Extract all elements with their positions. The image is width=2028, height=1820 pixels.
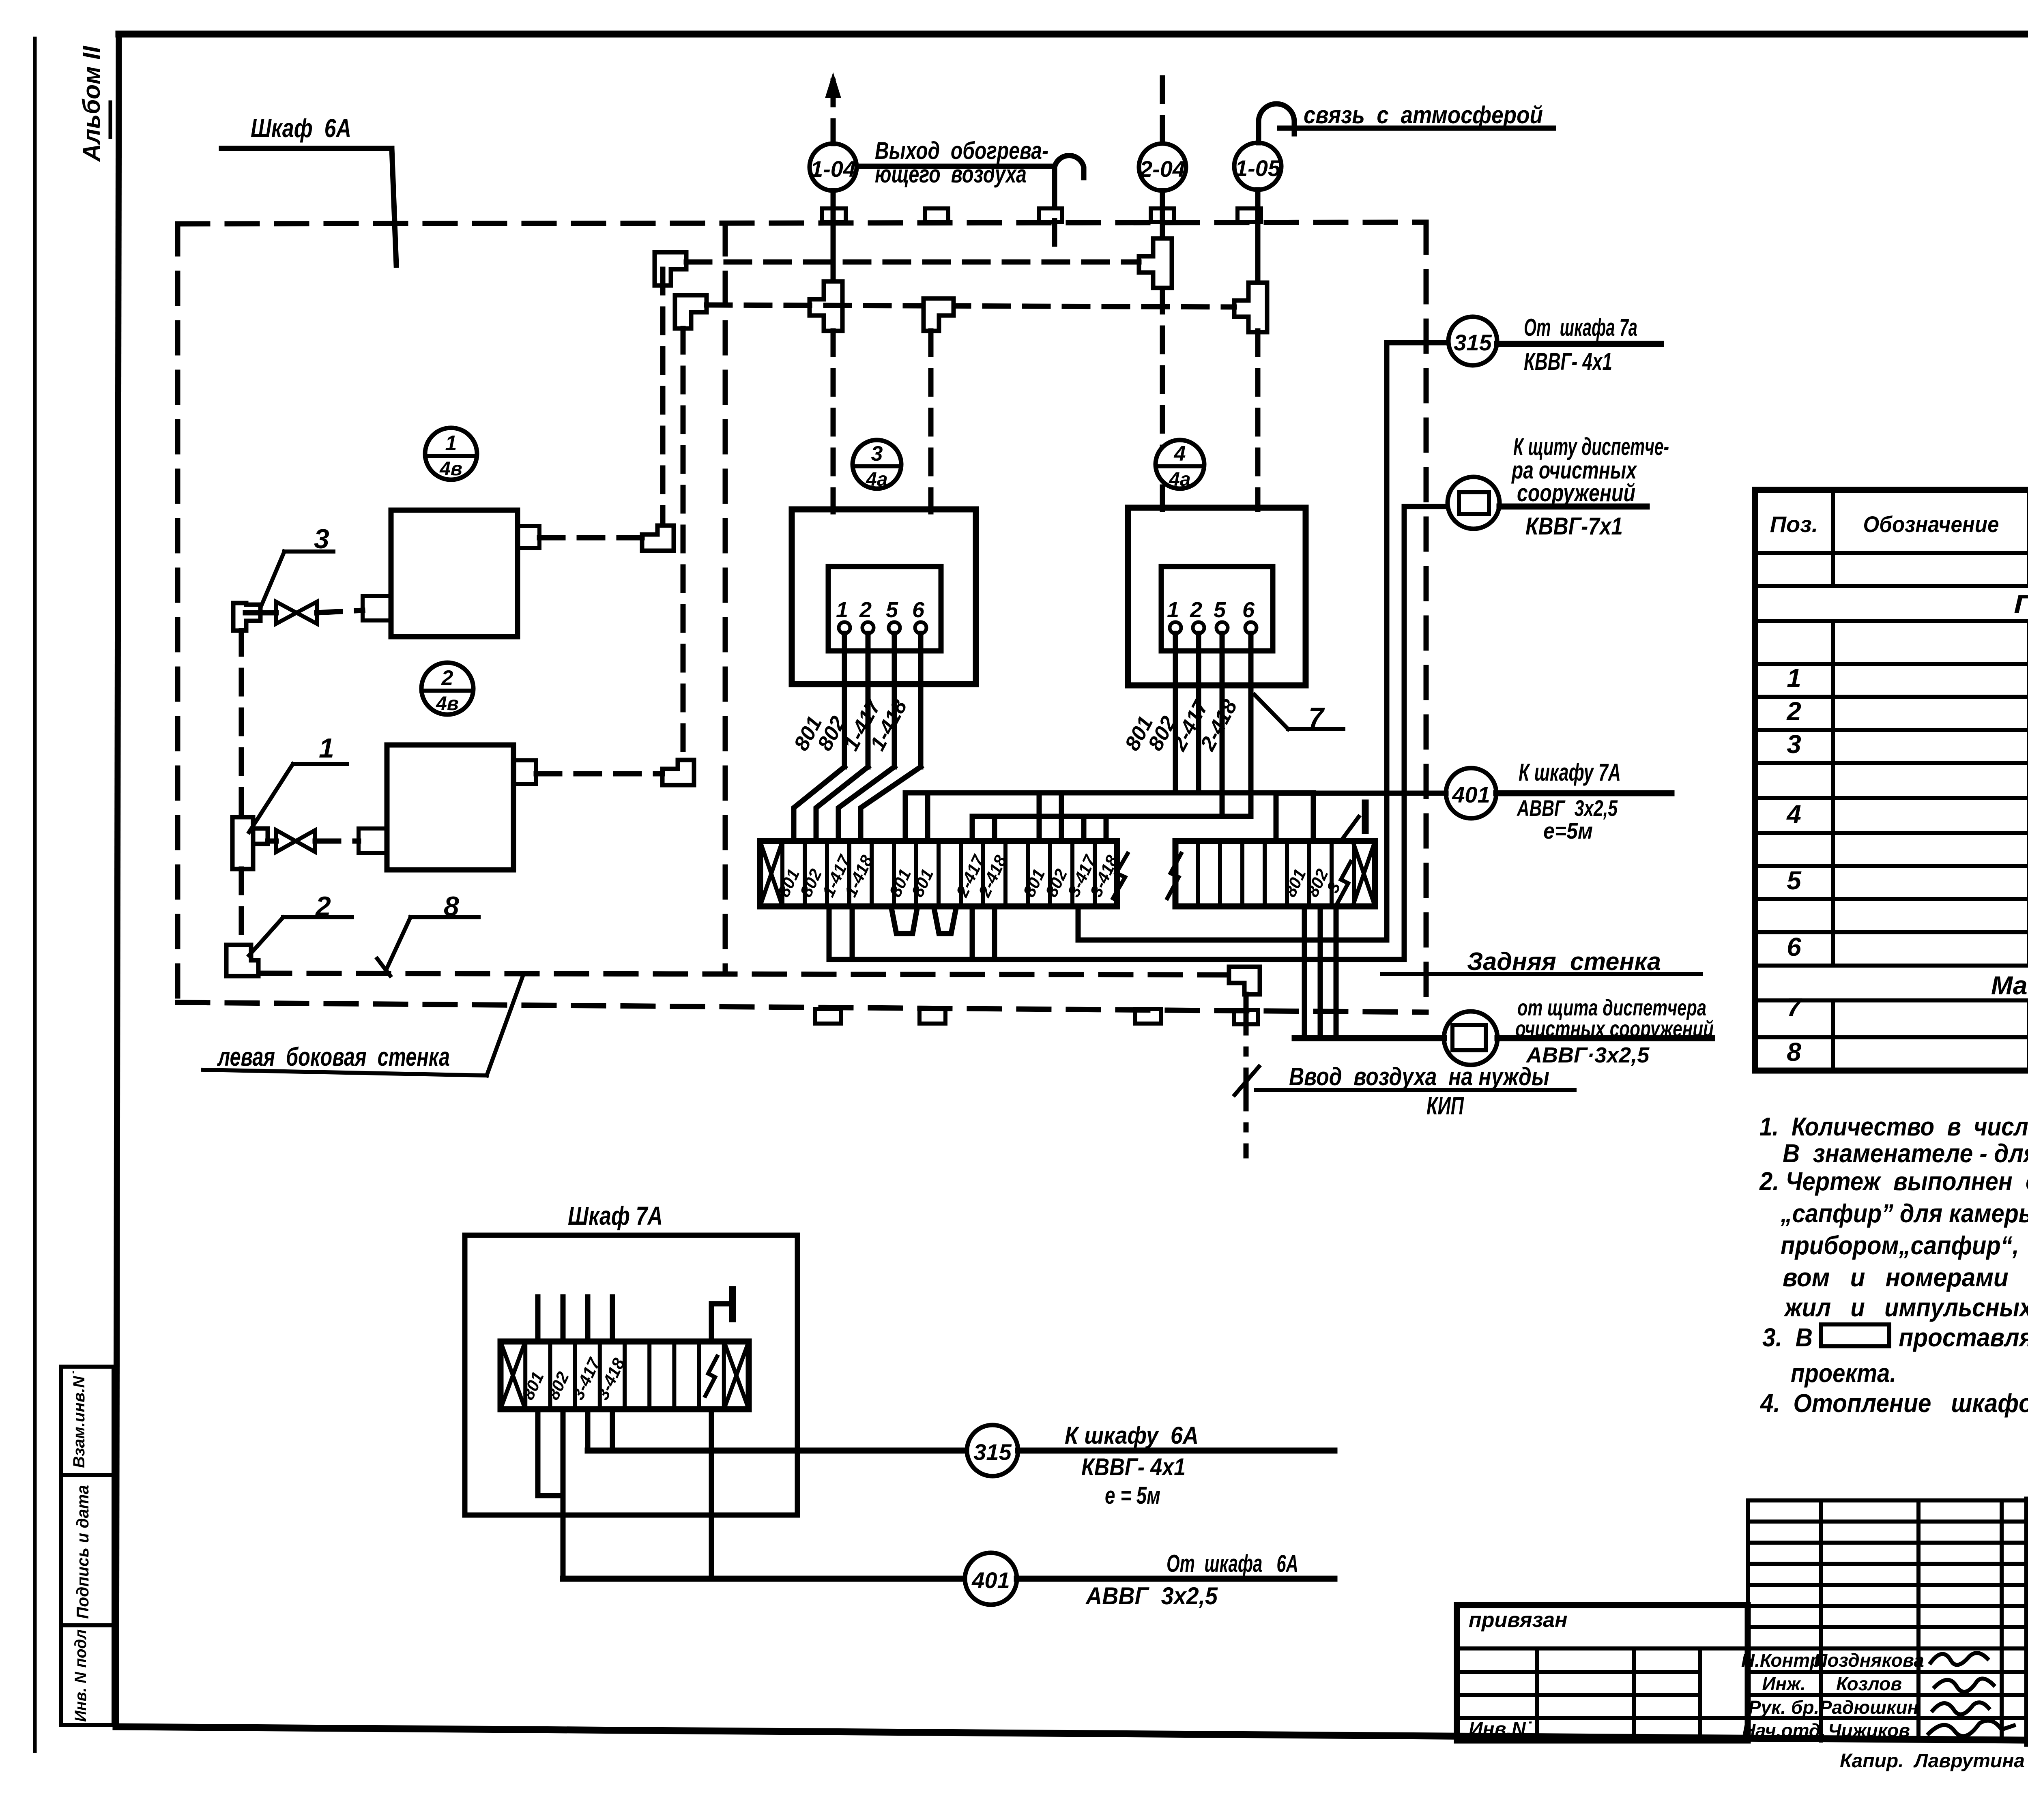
svg-text:Альбом II: Альбом II	[78, 45, 105, 162]
svg-text:Подпись и дата: Подпись и дата	[73, 1485, 92, 1619]
svg-text:левая боковая стенка: левая боковая стенка	[217, 1042, 450, 1071]
table row line	[1755, 761, 2028, 765]
table column line	[1831, 490, 1835, 586]
privyazan box	[1457, 1605, 1748, 1741]
wire tilde up	[711, 1304, 733, 1341]
svg-text:е = 5м: е = 5м	[1105, 1482, 1160, 1509]
cable AVVG drops	[1302, 906, 1307, 1038]
stem 2-04	[1160, 191, 1165, 240]
wire drop t2	[1173, 767, 1178, 793]
svg-text:4в: 4в	[436, 693, 459, 715]
svg-text:Поз.: Поз.	[1770, 511, 1818, 537]
strip2 end cross	[1353, 841, 1375, 906]
title code box	[2027, 1500, 2028, 1559]
impulse link to box1	[539, 535, 642, 541]
mounting tab	[1135, 1009, 1161, 1024]
signature column stack	[1746, 1500, 1750, 1741]
back wall dashed line	[260, 973, 1229, 975]
strip3 left cross	[501, 1341, 525, 1409]
wire drop 801	[925, 793, 930, 841]
position circle 4/4a	[1156, 440, 1204, 489]
box1 right stub	[518, 526, 539, 548]
wire drop 2-418	[992, 816, 997, 841]
svg-text:1. Количество в числителе: 1. Количество в числителе дано для шкафа…	[1759, 1112, 2028, 1141]
table row line	[1755, 551, 2028, 555]
svg-text:Шкаф 7А: Шкаф 7А	[568, 1201, 663, 1230]
wire jog	[838, 767, 894, 841]
wire 315 right	[1497, 341, 1661, 347]
svg-text:Чижиков: Чижиков	[1828, 1720, 1910, 1741]
svg-text:1: 1	[445, 431, 457, 455]
table row line	[1755, 1035, 2028, 1039]
position circle 1/4v	[425, 428, 477, 480]
frame top	[119, 31, 2028, 38]
svg-text:Задняя стенка: Задняя стенка	[1467, 948, 1661, 976]
impulse link to box2	[536, 771, 662, 777]
wire bus upper	[905, 793, 1313, 841]
strip3 squiggle	[705, 1356, 717, 1396]
mounting tab	[822, 208, 846, 222]
arrow up 1-04	[825, 72, 841, 98]
wire jog	[794, 767, 844, 841]
margin stamp box	[61, 1367, 114, 1725]
svg-text:315: 315	[1454, 330, 1492, 355]
wire 401 bottom right	[1017, 1576, 1334, 1582]
svg-text:КВВГ-7х1: КВВГ-7х1	[1525, 513, 1623, 540]
mounting tab	[1237, 208, 1261, 222]
svg-text:От шкафа 6А: От шкафа 6А	[1167, 1550, 1298, 1577]
wire 401 riser	[1274, 793, 1279, 841]
wire 401 right	[1496, 790, 1671, 796]
svg-text:3: 3	[871, 442, 883, 466]
wire 2-418	[1248, 633, 1254, 767]
position circle 3/4a	[853, 440, 901, 489]
elbow fitting F	[226, 945, 258, 976]
elbow fitting V2 bottom	[662, 760, 694, 785]
svg-text:Рук. бр.: Рук. бр.	[1749, 1697, 1820, 1718]
wire drops 2-417/2-418 low	[970, 906, 975, 959]
svg-text:401: 401	[1452, 782, 1490, 807]
svg-text:1-05: 1-05	[1235, 155, 1281, 181]
svg-text:Радюшкин: Радюшкин	[1820, 1697, 1919, 1718]
wire tilde down	[709, 1409, 714, 1579]
impulse riser V1	[660, 269, 666, 526]
svg-text:2: 2	[1786, 697, 1801, 726]
table row line	[1755, 796, 2028, 800]
signatures	[1931, 1653, 1987, 1665]
tee fitting 2-04	[1139, 238, 1172, 288]
svg-text:Позднякова: Позднякова	[1814, 1650, 1924, 1671]
wire 2-417	[1220, 633, 1225, 767]
elbow fitting bus1	[655, 252, 686, 285]
wire KVVG7 right	[1500, 504, 1647, 510]
wire 315 bottom right	[1018, 1448, 1334, 1454]
strip2 break squiggle mid	[1338, 862, 1351, 903]
table column line	[2027, 1000, 2028, 1071]
table row line	[1755, 662, 2028, 666]
elbow fitting G	[1229, 967, 1260, 994]
svg-text:1: 1	[1787, 663, 1801, 693]
svg-text:„сапфир” для камеры распреде: „сапфир” для камеры распределения ила. Ш…	[1780, 1199, 2028, 1228]
wire 3-418 down	[610, 1409, 615, 1451]
svg-text:Прочие изделия: Прочие изделия	[2014, 590, 2028, 619]
svg-text:5: 5	[1214, 598, 1226, 622]
svg-text:Шкаф 6А: Шкаф 6А	[251, 114, 351, 143]
wire loop U1	[891, 906, 917, 934]
svg-text:очистных сооружений: очистных сооружений	[1515, 1016, 1714, 1041]
impulse drop to sapphire box1	[928, 331, 934, 512]
svg-text:прибором„сапфир“, аналогичен: прибором„сапфир“, аналогичен и отличаетс…	[1781, 1231, 2028, 1260]
table row line	[1755, 619, 2028, 623]
svg-text:вом и номерами отходящ: вом и номерами отходящих кабелей, маркир…	[1783, 1263, 2028, 1292]
table column line	[2027, 621, 2028, 966]
svg-text:2-04: 2-04	[1139, 156, 1185, 182]
svg-text:6: 6	[1787, 932, 1801, 962]
strip3 right cross	[724, 1341, 749, 1409]
wire jog	[816, 767, 868, 841]
cable circle 315 bottom	[967, 1425, 1018, 1476]
wire ot schita left	[1295, 1035, 1444, 1041]
svg-text:Инж.: Инж.	[1762, 1673, 1806, 1694]
wire 3-417 down	[585, 1409, 591, 1451]
sapphire transmitter box 2	[1128, 508, 1306, 685]
cable box circle KVVG7	[1448, 477, 1500, 529]
wire bus lower	[972, 767, 1251, 841]
terminal strip XT1	[760, 841, 1117, 906]
cable circle 401 top	[1446, 768, 1496, 818]
impulse drop D-E	[239, 631, 244, 817]
wire 801	[1173, 633, 1178, 767]
svg-text:связь с атмосферой: связь с атмосферой	[1304, 101, 1543, 129]
link tee-valve	[268, 839, 276, 844]
hook 1-05	[1259, 104, 1294, 143]
impulse drop E-F	[239, 869, 244, 945]
svg-text:1: 1	[319, 733, 334, 764]
svg-text:4: 4	[1174, 442, 1186, 466]
svg-text:2: 2	[859, 598, 872, 622]
svg-text:5: 5	[1787, 866, 1802, 895]
svg-text:315: 315	[973, 1439, 1012, 1465]
cable KVVG-7x1 run	[829, 507, 1448, 959]
wire 1-418	[918, 633, 924, 767]
svg-text:2. Чертеж выполнен для шка: 2. Чертеж выполнен для шкафа 6А с двумя …	[1759, 1167, 2028, 1196]
cabinet 7A box	[465, 1235, 797, 1515]
elbow fitting bus2	[675, 295, 707, 328]
paper left edge	[33, 39, 37, 1751]
wire 802 down	[561, 1409, 566, 1579]
box1 left stub	[363, 596, 391, 620]
svg-text:Козлов: Козлов	[1836, 1673, 1902, 1694]
svg-text:6: 6	[1242, 598, 1255, 622]
wire 401 left	[1276, 791, 1446, 796]
terminal strip XT2	[1175, 841, 1375, 906]
svg-text:КВВГ- 4х1: КВВГ- 4х1	[1524, 348, 1612, 375]
strip2 break squiggle left	[1167, 854, 1181, 898]
svg-text:Выход обогрева-: Выход обогрева-	[875, 137, 1048, 164]
dashed vent line 1-04	[831, 81, 836, 144]
svg-text:сооружений: сооружений	[1517, 479, 1635, 507]
cable 315 run	[1078, 343, 1448, 940]
stem 1-05	[1255, 190, 1261, 284]
strip1 end cross	[760, 841, 782, 906]
table row line	[1755, 695, 2028, 699]
strip1 break squiggle	[1113, 854, 1128, 898]
wire drop 3-418	[1104, 816, 1109, 841]
wire drop 3-417	[1081, 816, 1087, 841]
parts table frame	[1755, 490, 2028, 1071]
terminal strip XT3	[501, 1341, 749, 1409]
impulse line 1-05 down	[1255, 331, 1261, 509]
table row line	[1755, 584, 2028, 588]
tick mark	[377, 959, 390, 976]
cable circle 401 bottom	[965, 1553, 1017, 1605]
instrument 1-05	[1234, 143, 1281, 190]
instrument 1-04	[810, 144, 857, 191]
box2 right stub	[514, 760, 536, 784]
wire drop 802 low	[850, 906, 855, 959]
svg-text:АВВГ 3х2,5: АВВГ 3х2,5	[1516, 795, 1618, 821]
svg-text:Нач.отд.: Нач.отд.	[1742, 1720, 1826, 1741]
svg-text:К шкафу 6А: К шкафу 6А	[1065, 1422, 1199, 1449]
mounting tab	[1151, 208, 1174, 222]
impulse bus 1	[686, 260, 1139, 265]
svg-text:привязан: привязан	[1469, 1608, 1568, 1632]
table row line	[1755, 831, 2028, 835]
svg-text:4в: 4в	[439, 458, 462, 480]
elbow fitting V1 bottom	[642, 526, 674, 551]
stem 1-04	[831, 191, 836, 284]
table row line	[1755, 897, 2028, 901]
elbow fitting C	[924, 298, 954, 331]
cable box circle ot schita	[1444, 1011, 1497, 1065]
svg-text:8: 8	[1787, 1037, 1801, 1067]
wire 1-417	[892, 633, 897, 767]
svg-text:От шкафа 7а: От шкафа 7а	[1524, 314, 1637, 341]
cable 401 bottom run	[563, 1576, 965, 1582]
svg-text:7: 7	[1787, 993, 1802, 1022]
wire drop 802b	[1059, 793, 1064, 841]
svg-text:4а: 4а	[1169, 469, 1190, 490]
sapphire transmitter box 1	[792, 509, 976, 684]
switch bar symbol	[1341, 817, 1359, 841]
svg-text:4: 4	[1786, 800, 1801, 829]
cable 315 bottom run	[588, 1448, 967, 1454]
svg-text:Ввод воздуха на нужды: Ввод воздуха на нужды	[1289, 1063, 1549, 1091]
soyuz box	[2027, 1679, 2028, 1685]
mounting tab	[919, 1009, 945, 1024]
svg-text:3: 3	[1787, 730, 1801, 759]
dashed vent line 2-04	[1160, 78, 1165, 144]
frame bottom	[116, 1727, 2028, 1744]
svg-text:4. Отопление шкафов КИП с: 4. Отопление шкафов КИП см. лист НК-8.	[1759, 1389, 2028, 1418]
table column line	[1831, 621, 1835, 966]
impulse bus 2	[707, 305, 1234, 307]
svg-text:2: 2	[1190, 598, 1202, 622]
instrument 2-04	[1139, 144, 1186, 191]
table row line	[1755, 964, 2028, 968]
cabinet 6A right dashed wall	[1424, 222, 1429, 1007]
table row line	[1755, 728, 2028, 732]
svg-text:АВВГ·3х2,5: АВВГ·3х2,5	[1525, 1043, 1650, 1067]
impulse valve3 to box1	[317, 610, 363, 613]
table column line	[2027, 490, 2028, 586]
valve 1-2	[276, 830, 315, 852]
svg-text:1: 1	[1167, 598, 1179, 622]
svg-text:К шкафу 7А: К шкафу 7А	[1519, 759, 1621, 786]
cabinet 6A left dashed wall	[175, 224, 180, 1007]
box2 terminal window	[1161, 567, 1273, 651]
tick air	[1235, 1067, 1259, 1095]
table row line	[1755, 930, 2028, 934]
air inlet line	[1244, 994, 1249, 1156]
wire ot schita right	[1497, 1035, 1712, 1041]
heater box 1	[391, 510, 518, 637]
svg-text:Капир. Лаврутина: Капир. Лаврутина	[1840, 1750, 2025, 1772]
table row line	[1755, 864, 2028, 868]
impulse line 2-04 down	[1160, 288, 1165, 509]
cabinet 6A label leader	[392, 148, 396, 265]
link elbow-valve	[245, 610, 276, 616]
svg-text:проекта.: проекта.	[1791, 1359, 1896, 1388]
svg-text:КИП: КИП	[1426, 1092, 1464, 1120]
svg-text:КВВГ- 4х1: КВВГ- 4х1	[1081, 1453, 1186, 1481]
svg-text:Инв. N подл: Инв. N подл	[72, 1629, 90, 1722]
svg-text:4а: 4а	[866, 469, 887, 490]
impulse riser V2	[681, 328, 686, 760]
wire drop 801b	[1037, 793, 1042, 841]
svg-text:401: 401	[971, 1567, 1010, 1593]
svg-text:АВВГ 3х2,5: АВВГ 3х2,5	[1085, 1582, 1218, 1610]
impulse valve to box2	[315, 839, 359, 844]
wire 801 down	[538, 1409, 563, 1496]
wire 802	[1196, 633, 1201, 767]
cable circle 315 top	[1448, 317, 1497, 365]
wires above strip3	[535, 1297, 541, 1341]
svg-text:Взам.инв.N˙: Взам.инв.N˙	[70, 1371, 88, 1468]
svg-text:К щиту диспетче-: К щиту диспетче-	[1513, 433, 1669, 460]
svg-text:1-04: 1-04	[810, 156, 856, 182]
cabinet internal dashed divider	[723, 224, 728, 973]
mounting tab	[1039, 208, 1062, 222]
tee fitting 1-04	[810, 281, 842, 331]
wire 802	[866, 633, 871, 767]
svg-text:6: 6	[912, 598, 925, 622]
svg-text:3. В проставляетс: 3. В проставляется номер кабеля при прив…	[1762, 1323, 2028, 1352]
table row line	[1755, 998, 2028, 1002]
svg-text:жил и импульсных труб.: жил и импульсных труб.	[1783, 1293, 2028, 1322]
note cable rect	[1821, 1324, 1889, 1346]
impulse line 1-04 down	[831, 331, 836, 512]
position circle 2/4v	[421, 663, 473, 715]
svg-text:е=5м: е=5м	[1543, 818, 1593, 843]
box2 left stub	[359, 828, 387, 853]
svg-text:Инв.N˙: Инв.N˙	[1469, 1719, 1532, 1740]
svg-text:В знаменателе - для шкафа: В знаменателе - для шкафа 7А.	[1783, 1139, 2028, 1168]
title empty row	[2027, 1556, 2028, 1562]
wire jog	[861, 767, 921, 841]
hook vent	[1055, 156, 1084, 181]
svg-text:1: 1	[836, 598, 848, 622]
elbow fitting D	[233, 603, 260, 631]
tee fitting 1-05	[1234, 283, 1267, 332]
box1 terminal window	[828, 567, 941, 651]
mounting tab air inlet	[1234, 1010, 1258, 1024]
svg-text:5: 5	[886, 598, 898, 622]
short dashed stub	[1052, 181, 1057, 260]
svg-text:2: 2	[441, 666, 453, 690]
table column line	[1831, 1000, 1835, 1071]
frame left	[116, 34, 119, 1727]
tee fitting E	[232, 817, 268, 869]
wire 801	[842, 633, 847, 767]
valve 3	[276, 602, 317, 624]
heater box 2	[387, 745, 513, 870]
svg-text:Материалы: Материалы	[1991, 971, 2028, 1000]
wire loop U2	[934, 906, 956, 934]
svg-text:Обозначение: Обозначение	[1863, 511, 1999, 537]
mounting tab	[925, 208, 948, 222]
cabinet 6A bottom dashed wall	[178, 1002, 1426, 1012]
mounting tab	[815, 1009, 841, 1024]
cabinet 6A top dashed wall	[178, 222, 1426, 224]
